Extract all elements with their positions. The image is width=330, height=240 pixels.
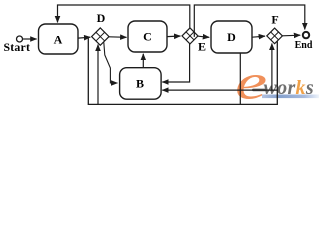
decision diamond F [267,28,283,44]
wire C to E [167,35,180,38]
wire drop from D-C edge into B left [104,42,118,83]
wire A to decision D (with junction drop) [78,36,90,39]
svg-text:F: F [271,13,278,27]
watermark e-works logo [235,55,319,110]
wire B top up into C bottom [142,54,144,68]
box B [120,68,162,100]
svg-text:D: D [227,30,236,44]
svg-text:B: B [136,77,144,91]
wire decision D to C [109,36,127,39]
box C [128,21,167,52]
svg-text:A: A [54,33,63,47]
decision diamond D [92,28,109,45]
box A [39,24,79,54]
wire E top up over to A top [58,5,190,28]
wire long return into B right (from bottom rail riser) [162,89,277,91]
svg-text:D: D [97,11,106,25]
wire from E-D edge up over to End [194,5,304,37]
svg-text:End: End [295,40,313,51]
svg-text:Start: Start [4,40,31,54]
start node [17,36,23,42]
wire F to End [282,34,300,37]
wire up into decision D bottom (from bottom rail) [97,45,99,105]
wire E to box D [198,36,209,37]
wire junction on A-D edge down along bottom up to F [88,38,277,104]
svg-text:E: E [198,40,206,54]
wire box D bottom down to bottom rail [239,53,241,104]
wire Start to A [23,38,37,40]
wire box D to F [252,36,265,37]
end node [303,32,309,38]
wire up into F bottom [271,44,273,91]
decision diamond E [182,28,198,44]
svg-text:C: C [143,30,152,44]
wire E bottom down into B right [162,44,189,82]
box D [211,21,252,53]
